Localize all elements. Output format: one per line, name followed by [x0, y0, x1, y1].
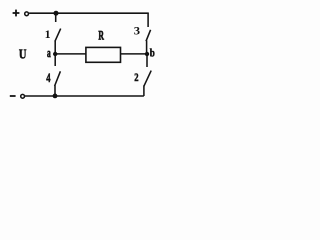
svg-text:3: 3: [134, 24, 140, 38]
svg-text:2: 2: [134, 72, 138, 84]
svg-text:R: R: [98, 30, 104, 43]
svg-text:1: 1: [45, 27, 51, 41]
svg-text:b: b: [150, 48, 155, 60]
svg-text:4: 4: [46, 72, 51, 86]
svg-text:U: U: [19, 46, 27, 62]
svg-text:a: a: [47, 47, 51, 60]
